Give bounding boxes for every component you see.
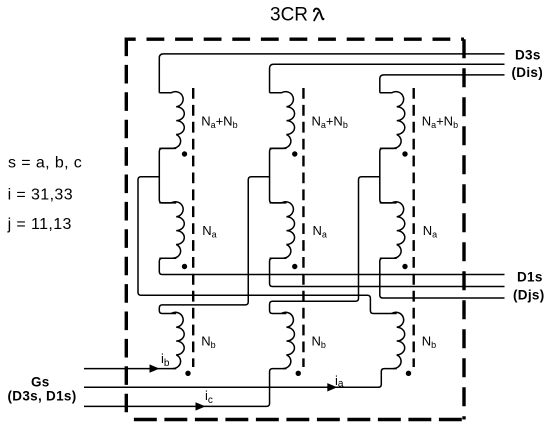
polarity dot top coil col 2	[292, 151, 297, 156]
svg-text:j = 11,13: j = 11,13	[7, 216, 72, 233]
wire tap column 1 to Nb column 3	[138, 177, 397, 314]
dashed enclosure border right edge	[462, 39, 465, 419]
svg-text:s = a, b, c: s = a, b, c	[8, 155, 82, 172]
title lambda symbol	[314, 9, 324, 20]
svg-text:D1s: D1s	[517, 270, 543, 285]
wire tap column 2 to Nb column 1	[159, 177, 269, 314]
wire ib input to Nb column 1	[84, 368, 176, 370]
wire Na bottom column 3 to right output	[380, 258, 505, 298]
wire ia input to Nb column 3	[84, 369, 397, 388]
winding Nb column 3	[392, 312, 405, 368]
svg-text:Na+Nb: Na+Nb	[311, 113, 347, 129]
dashed enclosure border top edge	[126, 38, 464, 41]
wire Na bottom column 1 to right output	[159, 258, 504, 274]
polarity dot top coil col 1	[182, 151, 187, 156]
svg-text:D3s: D3s	[515, 48, 541, 63]
svg-text:3CR: 3CR	[270, 5, 308, 26]
wire Na bottom column 2 to right output	[270, 258, 505, 286]
winding Na column 1	[159, 202, 184, 259]
wire Na+Nb to Na column 2	[270, 148, 287, 203]
svg-text:i = 31,33: i = 31,33	[8, 186, 73, 203]
current arrow ic	[196, 402, 206, 410]
winding Na+Nb column 2	[270, 92, 295, 149]
polarity dot mid coil col 1	[182, 264, 187, 269]
winding Na+Nb column 3	[380, 92, 405, 149]
winding Na+Nb column 1	[159, 92, 184, 149]
dashed enclosure border bottom edge	[126, 418, 464, 421]
wire ic input to Nb column 2	[84, 369, 286, 407]
winding Nb column 2	[281, 312, 294, 368]
wire top bus 2 to column 2	[270, 64, 505, 93]
core (dashed) column 3	[413, 88, 415, 367]
wire top bus 1 to column 1	[159, 54, 504, 93]
core (dashed) column 1	[192, 88, 194, 367]
polarity dot mid coil col 3	[402, 264, 407, 269]
svg-text:Gs: Gs	[31, 375, 50, 390]
polarity dot bot coil col 3	[406, 371, 411, 376]
winding Na column 3	[380, 202, 405, 259]
svg-text:(Djs): (Djs)	[513, 288, 545, 303]
polarity dot bot coil col 2	[296, 371, 301, 376]
polarity dot mid coil col 2	[292, 264, 297, 269]
wire tap column 3 to Nb column 2	[270, 177, 380, 314]
svg-text:Na+Nb: Na+Nb	[201, 113, 237, 129]
wire Na+Nb to Na column 3	[380, 148, 397, 203]
current arrow ib	[150, 364, 160, 372]
winding Na column 2	[270, 202, 295, 259]
svg-text:(Dis): (Dis)	[512, 65, 544, 80]
polarity dot top coil col 3	[402, 151, 407, 156]
wire top bus 3 to column 3	[380, 75, 505, 93]
wire Na+Nb to Na column 1	[159, 148, 176, 203]
dashed enclosure border left edge	[125, 38, 128, 420]
current arrow ia	[327, 383, 337, 391]
svg-text:(D3s, D1s): (D3s, D1s)	[8, 389, 77, 404]
polarity dot bot coil col 1	[185, 371, 190, 376]
core (dashed) column 2	[302, 88, 304, 367]
winding Nb column 1	[171, 312, 184, 368]
svg-text:Na+Nb: Na+Nb	[422, 113, 458, 129]
